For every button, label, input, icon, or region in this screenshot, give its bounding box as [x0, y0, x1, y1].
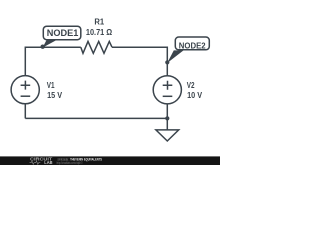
voltage source V2 circle — [153, 76, 181, 104]
voltage source V1 circle — [11, 76, 39, 104]
svg-text:R1: R1 — [94, 18, 104, 27]
svg-text:10 V: 10 V — [187, 91, 203, 100]
V1 plus sign — [21, 81, 31, 90]
svg-text:15 V: 15 V — [47, 91, 63, 100]
svg-text:http://circuitlab.com/c/tq6h7/: http://circuitlab.com/c/tq6h7/ — [57, 161, 84, 165]
footer circuitlab logo waveform — [30, 161, 41, 164]
svg-text:NODE2: NODE2 — [179, 42, 206, 51]
junction dot node A (left, on top wire) — [41, 45, 45, 49]
wire bottom horizontal — [25, 117, 167, 119]
resistor R1 zigzag — [81, 41, 112, 53]
wire V2 bottom vertical — [166, 104, 168, 119]
svg-text:V2: V2 — [187, 81, 195, 90]
ground symbol — [156, 130, 179, 141]
wire right vertical node2 branch — [166, 47, 168, 77]
wire V1 bottom vertical — [24, 104, 26, 119]
svg-text:V1: V1 — [47, 81, 55, 90]
wire top-left horizontal — [25, 46, 81, 48]
svg-text:10.71 Ω: 10.71 Ω — [86, 28, 113, 37]
wire resistor-right horizontal — [112, 46, 167, 48]
node NODE2 flag box — [175, 37, 209, 50]
V2 minus sign — [163, 95, 173, 97]
junction dot (bottom wire / ground) — [165, 116, 169, 120]
wire ground stub — [166, 118, 168, 129]
footer bar — [0, 156, 220, 165]
svg-text:LAB: LAB — [44, 160, 52, 165]
node NODE1 flag box — [43, 26, 81, 40]
node NODE2 flag tail — [167, 50, 183, 63]
svg-text:NODE1: NODE1 — [47, 28, 79, 38]
V1 minus sign — [21, 95, 31, 97]
node NODE1 flag tail — [43, 40, 58, 48]
junction dot node B (right, on V2 top wire) — [165, 60, 169, 64]
V2 plus sign — [163, 81, 173, 90]
wire left vertical node1 branch — [24, 47, 26, 77]
